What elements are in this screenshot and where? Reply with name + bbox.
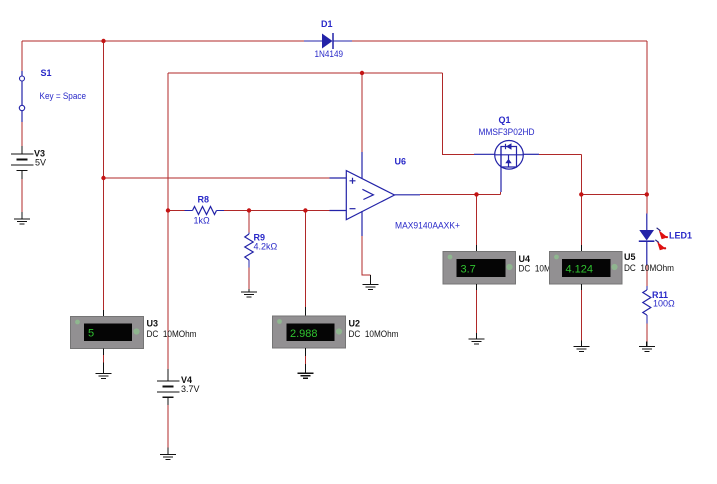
svg-text:5V: 5V	[35, 158, 46, 168]
node junction U4/output	[474, 192, 478, 196]
node junction R9	[247, 208, 251, 212]
wire Q1 drain to x=581 down	[539, 154, 581, 245]
wire minus line right segment	[224, 210, 330, 212]
resistor R9	[245, 233, 278, 268]
node junction x103 top	[101, 39, 105, 43]
svg-text:U2: U2	[349, 319, 361, 329]
battery V4	[157, 369, 200, 405]
wire vertical x=103 (node to U3)	[103, 41, 105, 310]
resistor R11	[643, 286, 675, 324]
wire V4 bottom to ground	[167, 405, 169, 448]
wire vertical x=168 (to R8 node and V4)	[167, 73, 169, 369]
node junction minus line left	[166, 208, 170, 212]
ground (V3)	[14, 212, 30, 224]
wire V3 to ground	[21, 179, 23, 212]
wire U3 bottom	[103, 355, 105, 363]
multimeter U2	[273, 307, 399, 356]
battery V3	[11, 146, 46, 179]
svg-text:U4: U4	[519, 254, 531, 264]
wire left vertical top (to S1)	[21, 41, 23, 71]
svg-text:Key = Space: Key = Space	[40, 91, 87, 101]
wire U2 branch	[304, 211, 306, 308]
multimeter U3	[71, 310, 197, 355]
wire op-amp output to Q1 gate	[420, 192, 501, 194]
wire minus line left segment	[168, 210, 185, 212]
node junction U2	[303, 208, 307, 212]
node junction U5/drain	[579, 192, 583, 196]
wire U5 bottom	[581, 290, 583, 341]
svg-text:U6: U6	[395, 157, 407, 167]
diode D1	[304, 19, 352, 59]
wire right vertical x=646.8	[646, 41, 648, 214]
wire top rail left of D1	[22, 40, 304, 42]
wire LED1 to R11	[646, 265, 648, 286]
wire R9 bottom to ground	[248, 268, 250, 290]
wire plus input line y=178	[104, 177, 330, 179]
multimeter U4	[443, 245, 569, 290]
LED LED1	[639, 214, 692, 266]
ground (V4)	[160, 448, 176, 460]
svg-text:3.7V: 3.7V	[181, 384, 200, 394]
wire R11 to ground	[646, 324, 648, 342]
transistor Q1	[474, 115, 539, 192]
ground (R11)	[639, 342, 655, 352]
svg-text:DC 10MOhm: DC 10MOhm	[349, 329, 399, 339]
multimeter U5	[550, 245, 675, 290]
wire op-amp V+ supply	[361, 73, 363, 152]
node junction V+ rail	[360, 71, 364, 75]
ground (U5)	[574, 341, 590, 352]
switch S1	[19, 68, 86, 122]
wire drain node to LED node y=194.4	[581, 193, 647, 195]
resistor R8	[185, 195, 225, 226]
svg-text:LED1: LED1	[669, 231, 692, 241]
svg-text:5: 5	[88, 328, 94, 340]
wire U2 bottom	[304, 356, 306, 364]
svg-text:3.7: 3.7	[461, 264, 476, 276]
op-amp U6	[330, 152, 461, 236]
wire x=442.5 down to Q1	[443, 73, 475, 154]
node junction plus line	[101, 176, 105, 180]
wire op-amp V- to ground	[362, 236, 371, 275]
wire R9 top	[248, 211, 250, 233]
svg-text:2.988: 2.988	[290, 328, 318, 340]
ground (op-amp V-)	[363, 275, 379, 290]
svg-text:U5: U5	[624, 252, 636, 262]
ground (U4)	[469, 333, 485, 344]
svg-text:U3: U3	[147, 319, 159, 329]
svg-text:S1: S1	[41, 68, 52, 78]
svg-text:R8: R8	[198, 195, 210, 205]
svg-text:Q1: Q1	[499, 115, 511, 125]
node junction LED	[645, 192, 649, 196]
svg-text:1N4149: 1N4149	[315, 49, 344, 59]
svg-text:1kΩ: 1kΩ	[194, 216, 211, 226]
svg-text:MAX9140AAXK+: MAX9140AAXK+	[395, 221, 460, 231]
svg-text:DC 10MOhm: DC 10MOhm	[624, 263, 674, 273]
svg-text:4.2kΩ: 4.2kΩ	[254, 242, 278, 252]
wire U4 bottom	[476, 290, 478, 333]
svg-text:4.124: 4.124	[566, 264, 594, 276]
ground (U2)	[297, 364, 313, 378]
svg-text:MMSF3P02HD: MMSF3P02HD	[479, 127, 535, 137]
svg-text:DC 10MOhm: DC 10MOhm	[147, 329, 197, 339]
wire rail y=73	[168, 72, 443, 74]
wire S1 to V3	[21, 122, 23, 146]
svg-text:100Ω: 100Ω	[653, 299, 675, 309]
ground (U3)	[96, 363, 112, 379]
wire U4 branch	[476, 194, 478, 245]
ground (R9)	[241, 289, 257, 297]
wire top rail right of D1	[352, 40, 647, 42]
svg-text:D1: D1	[321, 19, 333, 29]
